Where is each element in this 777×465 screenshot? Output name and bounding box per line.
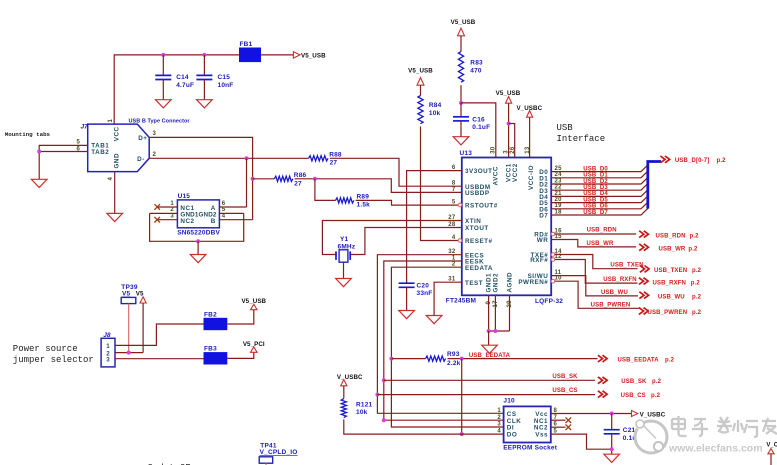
svg-text:R89: R89 <box>357 193 370 200</box>
chevron USB_PWREN <box>639 308 648 315</box>
ferrite bead FB1 <box>239 48 261 63</box>
bus USB_D[0-7] <box>648 162 661 209</box>
svg-text:5: 5 <box>222 207 226 213</box>
wire VCC-IO <box>529 117 531 157</box>
power port V5_USB at FB2 <box>251 304 257 310</box>
wire FB1 to V5_USB arrow <box>261 54 293 56</box>
svg-text:2: 2 <box>153 152 157 158</box>
svg-text:2.2k: 2.2k <box>447 360 461 367</box>
svg-text:C20: C20 <box>417 283 430 290</box>
wire to R84 <box>420 85 422 95</box>
svg-text:NC2: NC2 <box>534 425 548 432</box>
U15 pin 3 stub no-connect <box>158 219 177 221</box>
svg-text:1: 1 <box>170 201 174 207</box>
wire data D5 <box>551 196 648 203</box>
resistor R93 <box>426 356 446 361</box>
svg-text:RXF#: RXF# <box>530 257 548 264</box>
svg-text:USB_PWREN: USB_PWREN <box>591 302 631 308</box>
svg-text:V_C: V_C <box>766 442 777 448</box>
chevron USB_SK <box>598 377 607 384</box>
bubble RSTOUT# <box>458 203 462 207</box>
power port V5_USB right arrow <box>293 52 300 58</box>
svg-text:4.7uF: 4.7uF <box>176 82 194 89</box>
wire to ground <box>488 331 490 345</box>
svg-text:2: 2 <box>497 415 501 421</box>
pin bubble <box>551 232 555 236</box>
svg-text:XTIN: XTIN <box>465 218 481 225</box>
U15 pin 5 stub <box>219 212 243 214</box>
junction D+ branch <box>251 177 255 181</box>
svg-text:USB_TXEN: USB_TXEN <box>610 262 643 268</box>
wire data D4 <box>551 190 648 197</box>
pin bubble <box>551 253 555 257</box>
svg-text:4: 4 <box>108 177 114 181</box>
svg-text:R83: R83 <box>470 60 483 67</box>
svg-text:27: 27 <box>294 180 302 187</box>
svg-text:Vss: Vss <box>535 432 548 439</box>
junction GND1 <box>487 329 491 333</box>
ground C14 <box>156 100 172 108</box>
capacitor C15 <box>203 55 205 76</box>
connector J8 <box>101 338 115 367</box>
wire TAB2 <box>39 151 87 153</box>
junction DO branch <box>460 357 464 361</box>
svg-text:USB_WU: USB_WU <box>601 290 628 296</box>
junction D- to U15 A <box>245 156 249 160</box>
svg-text:p.2: p.2 <box>717 158 727 164</box>
ground C16 <box>453 137 469 145</box>
svg-text:3V3OUT: 3V3OUT <box>465 168 493 175</box>
wire R84 to RESET# <box>421 127 459 241</box>
svg-text:4: 4 <box>452 235 456 241</box>
svg-text:J7: J7 <box>81 124 89 131</box>
wire D- down to U15 pin A <box>246 158 248 207</box>
svg-text:3: 3 <box>504 150 510 154</box>
svg-text:USB_D1: USB_D1 <box>583 173 608 179</box>
x-mark pin1 <box>154 204 160 210</box>
capacitor C21 <box>611 414 613 430</box>
junction USBDP to R89 <box>313 177 317 181</box>
svg-text:TEST: TEST <box>465 280 483 287</box>
svg-text:470: 470 <box>470 67 482 74</box>
svg-text:USBDP: USBDP <box>465 190 490 197</box>
svg-text:USB_EEDATA: USB_EEDATA <box>469 353 511 359</box>
svg-text:V5_USB: V5_USB <box>451 19 476 26</box>
chevron USB_RDN <box>639 231 648 238</box>
connector J7 USB B Type <box>88 124 150 172</box>
svg-text:C14: C14 <box>176 74 189 81</box>
wire WR <box>551 240 636 247</box>
svg-text:p.2: p.2 <box>692 310 702 316</box>
svg-text:J8: J8 <box>103 332 111 339</box>
junction USB_CS branch <box>375 393 379 397</box>
bubble RESET# <box>458 239 462 243</box>
svg-text:USB_D3: USB_D3 <box>583 185 608 191</box>
svg-text:6: 6 <box>222 201 226 207</box>
svg-text:3: 3 <box>106 357 110 364</box>
junction Vss/C21 ground <box>610 447 614 451</box>
wire D+ from J7 pin3 <box>149 137 252 219</box>
wire FB3 to V5_PCI <box>227 352 254 358</box>
svg-text:7: 7 <box>452 187 456 193</box>
svg-text:1.5k: 1.5k <box>357 202 371 209</box>
svg-text:USB_WR: USB_WR <box>659 247 686 253</box>
svg-text:RESET#: RESET# <box>465 238 493 245</box>
svg-text:USB_D4: USB_D4 <box>583 191 608 197</box>
junction R93 branch <box>389 357 393 361</box>
wire D- from J7 pin2 <box>149 157 308 159</box>
svg-text:V_USBC: V_USBC <box>337 374 363 381</box>
svg-text:4: 4 <box>497 429 501 435</box>
chevron USB_CS <box>598 391 607 398</box>
svg-text:R86: R86 <box>294 172 307 179</box>
junction C21 tap <box>610 412 614 416</box>
power port V5 <box>140 297 146 303</box>
capacitor C20 <box>399 282 415 284</box>
pin bubble <box>551 279 555 283</box>
svg-text:B: B <box>211 218 216 225</box>
wire EEDATA to J10 DI <box>391 267 503 427</box>
svg-text:WR: WR <box>537 237 549 244</box>
svg-text:V5: V5 <box>122 291 131 298</box>
wire FB2 to V5_USB <box>227 310 254 324</box>
svg-text:USB_D7: USB_D7 <box>583 210 608 216</box>
svg-text:USB_WR: USB_WR <box>587 241 614 247</box>
chevron USB_TXEN <box>640 266 649 273</box>
ground U13 <box>482 345 498 353</box>
svg-text:10k: 10k <box>429 110 441 117</box>
svg-text:USB_WU: USB_WU <box>658 295 685 301</box>
svg-text:USB_SK: USB_SK <box>552 374 578 380</box>
svg-text:USB_TXEN: USB_TXEN <box>654 268 687 274</box>
ferrite bead FB3 <box>204 352 228 364</box>
resistor R89 <box>336 198 354 203</box>
wire EESK to J10 CLK <box>384 261 504 420</box>
junction GND2 <box>493 329 497 333</box>
svg-text:R84: R84 <box>429 102 442 109</box>
connector J10 EEPROM socket <box>504 406 551 442</box>
svg-text:3: 3 <box>497 422 501 428</box>
svg-text:C21: C21 <box>623 427 636 434</box>
svg-text:26: 26 <box>510 146 516 154</box>
wire SI/WU <box>551 276 638 296</box>
svg-text:D-: D- <box>137 156 145 163</box>
wire data D2 <box>551 177 648 184</box>
svg-text:30: 30 <box>490 146 496 154</box>
resistor R86 <box>274 176 293 181</box>
svg-text:p.2: p.2 <box>652 379 662 385</box>
svg-text:1: 1 <box>108 119 114 123</box>
wire TP41 stub <box>265 463 267 465</box>
ground C15 <box>197 100 213 108</box>
resistor R121 <box>341 399 346 418</box>
svg-text:AGND: AGND <box>507 272 514 293</box>
svg-text:Y1: Y1 <box>340 236 349 243</box>
svg-text:p.2: p.2 <box>692 295 702 301</box>
chevron USB_WR <box>639 244 648 251</box>
wire R88 to USBDM <box>330 158 462 186</box>
wire GND1 GND2 AGND <box>489 295 510 331</box>
junction TP39/J8 pin2 <box>127 351 131 355</box>
svg-text:p.2: p.2 <box>688 247 698 253</box>
wire USB_SK <box>384 379 595 381</box>
svg-text:USB_D5: USB_D5 <box>583 197 608 203</box>
svg-text:www.elecfans.com: www.elecfans.com <box>668 443 763 455</box>
resistor R83 <box>458 52 463 83</box>
svg-text:DO: DO <box>507 432 517 439</box>
svg-text:V_CPLD_IO: V_CPLD_IO <box>260 449 298 456</box>
svg-text:V5_USB: V5_USB <box>241 298 266 305</box>
svg-text:13: 13 <box>525 146 531 154</box>
wire J10 Vss to ground <box>551 434 612 449</box>
ground Y1 <box>336 279 352 287</box>
wire to ground <box>197 241 199 254</box>
wire J8 pin3 to FB3 <box>115 358 204 360</box>
svg-text:TAB2: TAB2 <box>91 149 109 156</box>
watermark chinese characters <box>672 416 687 436</box>
wire PWREN# <box>555 281 640 308</box>
chevron USB_EEDATA <box>598 355 607 362</box>
svg-text:GND: GND <box>113 153 120 169</box>
svg-text:p.2: p.2 <box>691 280 701 286</box>
J10 NC1 stub no-connect <box>551 419 566 421</box>
svg-text:R88: R88 <box>329 151 342 158</box>
ground C20 <box>399 311 415 319</box>
wire R86 to USBDP <box>295 179 462 193</box>
wire to R121 <box>343 386 345 399</box>
svg-text:NC2: NC2 <box>180 218 194 225</box>
junction VCC branch <box>507 122 511 126</box>
svg-text:17: 17 <box>493 300 499 308</box>
svg-text:J10: J10 <box>503 397 515 404</box>
wire XTIN <box>322 221 461 255</box>
wire J10 Vcc to V_USBC <box>551 413 632 415</box>
svg-text:27: 27 <box>330 160 338 167</box>
J10 NC2 stub no-connect <box>551 426 566 428</box>
x-mark pin3 <box>154 217 160 223</box>
svg-text:5: 5 <box>452 199 456 205</box>
svg-text:USB: USB <box>557 123 574 133</box>
svg-text:U15: U15 <box>178 193 191 200</box>
wire down to R89 <box>315 179 336 201</box>
svg-text:USB_D2: USB_D2 <box>583 179 608 185</box>
chevron USB_WU <box>639 292 648 299</box>
svg-text:SN65220DBV: SN65220DBV <box>177 230 220 237</box>
wire EECS to J10 CS <box>377 255 503 414</box>
wire RXF# <box>555 260 638 284</box>
power port V5_PCI <box>251 347 257 353</box>
svg-text:3: 3 <box>170 214 174 220</box>
bus entry chevron <box>660 156 669 163</box>
junction CLK corner <box>382 418 386 422</box>
ground mounting tabs <box>31 179 47 187</box>
wire TXE# <box>555 255 638 269</box>
U15 pin 4 stub <box>219 219 252 221</box>
svg-text:USB_D0: USB_D0 <box>583 166 608 172</box>
wire 3V3OUT to C20 <box>407 171 462 284</box>
svg-text:D7: D7 <box>539 213 548 220</box>
svg-text:V5_PCI: V5_PCI <box>243 341 265 348</box>
wire V5 down to J8 pin2 <box>142 303 144 353</box>
svg-text:C15: C15 <box>218 74 231 81</box>
power port V_USBC right arrow <box>632 411 638 417</box>
wire crystal to ground <box>343 262 345 278</box>
ground TEST <box>426 316 442 324</box>
svg-text:USB_D6: USB_D6 <box>583 204 608 210</box>
IC U15 SN65220DBV <box>177 200 219 228</box>
svg-text:R93: R93 <box>447 351 460 358</box>
svg-text:V_USBC: V_USBC <box>640 412 666 419</box>
wire D+ branch to R86 <box>253 178 275 180</box>
svg-text:USB_PWREN: USB_PWREN <box>648 310 688 316</box>
wire data D7 <box>551 208 648 215</box>
svg-text:2: 2 <box>170 207 174 213</box>
svg-text:GND2: GND2 <box>492 273 499 293</box>
svg-text:1: 1 <box>497 408 501 414</box>
svg-text:USB_EEDATA: USB_EEDATA <box>618 358 660 364</box>
svg-text:XTOUT: XTOUT <box>465 225 489 232</box>
junction TAB <box>37 150 41 154</box>
svg-text:PWREN#: PWREN# <box>518 279 548 286</box>
svg-text:USB_RDN: USB_RDN <box>587 228 617 234</box>
svg-text:29: 29 <box>507 300 513 308</box>
ground J7 shell <box>107 213 123 221</box>
svg-text:USB_RXFN: USB_RXFN <box>653 280 687 286</box>
svg-text:A: A <box>211 205 216 212</box>
svg-text:VCC2: VCC2 <box>512 163 519 182</box>
svg-text:R121: R121 <box>356 401 373 408</box>
wire VCC2 branch <box>509 124 515 158</box>
wire USB_CS <box>377 394 595 396</box>
svg-text:U13: U13 <box>460 150 473 157</box>
svg-text:jumper selector: jumper selector <box>13 355 94 365</box>
wire to R83 <box>460 36 462 52</box>
junction USB_SK branch <box>382 378 386 382</box>
ground C21 <box>604 454 620 462</box>
wire XTOUT <box>350 228 462 255</box>
svg-text:USB_RDN: USB_RDN <box>656 233 686 239</box>
junction C15 tap <box>202 53 206 57</box>
svg-text:USB_RXFN: USB_RXFN <box>603 277 637 283</box>
wire R121 to DO row <box>344 419 504 434</box>
wire USB_EEDATA <box>448 358 598 360</box>
capacitor C16 <box>460 103 462 117</box>
svg-text:0.1uF: 0.1uF <box>472 124 490 131</box>
svg-text:33nF: 33nF <box>417 290 433 297</box>
svg-text:USB_SK: USB_SK <box>621 379 647 385</box>
ferrite bead FB2 <box>204 318 228 330</box>
svg-text:V5_USB: V5_USB <box>408 68 433 75</box>
wire J8 pin2 <box>115 352 143 354</box>
wire data D6 <box>551 202 648 209</box>
svg-text:10k: 10k <box>356 409 368 416</box>
wire data D1 <box>551 171 648 178</box>
svg-text:FB1: FB1 <box>240 41 253 48</box>
svg-text:C16: C16 <box>472 116 485 123</box>
svg-text:USB_D[0-7]: USB_D[0-7] <box>675 158 710 164</box>
svg-text:3: 3 <box>153 131 157 137</box>
svg-text:VCC: VCC <box>113 126 120 141</box>
svg-text:LQFP-32: LQFP-32 <box>535 298 563 305</box>
svg-text:10nF: 10nF <box>218 82 234 89</box>
U15 pin 2 stub <box>150 212 178 214</box>
wire VCC1 <box>508 103 510 157</box>
wire J8 pin1 to FB2 <box>115 324 204 345</box>
svg-text:Power source: Power source <box>13 344 78 354</box>
svg-text:USB_CS: USB_CS <box>552 388 577 394</box>
svg-text:Interface: Interface <box>557 134 606 144</box>
junction DO row <box>460 432 464 436</box>
resistor R88 <box>309 156 328 161</box>
wire R83 to junction <box>460 85 462 103</box>
wire R89 to RSTOUT# <box>356 200 459 205</box>
wire data D3 <box>551 184 648 191</box>
svg-text:p.2: p.2 <box>690 233 700 239</box>
svg-text:RSTOUT#: RSTOUT# <box>465 203 498 210</box>
watermark logo circle <box>635 420 667 453</box>
svg-text:FB3: FB3 <box>204 346 217 353</box>
svg-text:VCC-IO: VCC-IO <box>528 165 535 190</box>
junction U15 ground <box>196 239 200 243</box>
U15 pin 6 stub <box>219 206 246 208</box>
ground U15 <box>190 255 206 263</box>
wire V5_USB rail from J7 pin 1 <box>114 55 239 124</box>
svg-text:p.2: p.2 <box>692 268 702 274</box>
wire TAB1 <box>39 145 87 179</box>
capacitor C14 <box>162 55 164 76</box>
svg-text:EEDATA: EEDATA <box>465 265 493 272</box>
wire data D0 <box>551 165 648 172</box>
svg-text:USB B Type Connector: USB B Type Connector <box>129 119 191 125</box>
svg-text:V5_USB: V5_USB <box>496 90 521 97</box>
svg-text:8: 8 <box>452 181 456 187</box>
wire TEST to ground <box>434 282 462 315</box>
wire U15 ground loop <box>150 213 244 241</box>
pin bubble <box>551 258 555 262</box>
wire down to DO row <box>461 359 463 435</box>
svg-text:p.2: p.2 <box>651 393 661 399</box>
svg-text:FB2: FB2 <box>204 311 217 318</box>
wire TP39 down <box>128 304 130 353</box>
svg-text:D+: D+ <box>138 135 147 142</box>
wire J7 pin4 to ground <box>114 172 116 214</box>
resistor R84 <box>418 96 423 124</box>
svg-text:EEPROM Socket: EEPROM Socket <box>503 445 558 452</box>
junction AVCC filter <box>459 101 463 105</box>
svg-text:DI: DI <box>507 425 514 432</box>
svg-text:4: 4 <box>222 214 226 220</box>
svg-text:1: 1 <box>106 343 110 350</box>
svg-text:Mounting tabs: Mounting tabs <box>5 131 51 138</box>
U15 pin 1 stub no-connect <box>158 206 177 208</box>
IC U13 FT245BM <box>462 158 551 296</box>
svg-text:p.2: p.2 <box>665 358 675 364</box>
junction C14 tap <box>161 53 165 57</box>
wire to R93 <box>391 358 425 360</box>
svg-text:V5_USB: V5_USB <box>301 53 326 60</box>
chevron USB_RXFN <box>639 278 648 285</box>
svg-text:USB_CS: USB_CS <box>621 393 646 399</box>
svg-text:AVCC: AVCC <box>492 166 499 185</box>
wire RD# <box>555 233 636 235</box>
svg-text:FT245BM: FT245BM <box>446 298 476 305</box>
wire junction to AVCC pin30 <box>461 103 496 158</box>
